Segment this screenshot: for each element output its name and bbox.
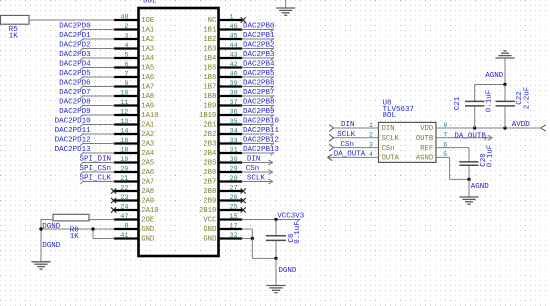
svg-text:46: 46: [230, 23, 238, 31]
svg-text:DAC2PD4: DAC2PD4: [59, 61, 91, 69]
svg-text:1B1: 1B1: [203, 26, 216, 34]
svg-text:2B10: 2B10: [199, 207, 216, 215]
svg-text:DAC2PD9: DAC2PD9: [59, 108, 91, 116]
svg-text:2B1: 2B1: [203, 121, 216, 129]
svg-text:SCLK: SCLK: [247, 175, 266, 183]
svg-text:DAC2PB8: DAC2PB8: [243, 99, 275, 107]
svg-text:AGND: AGND: [485, 72, 504, 80]
svg-text:2B5: 2B5: [203, 159, 216, 167]
svg-text:1A3: 1A3: [141, 45, 154, 53]
svg-text:18: 18: [120, 146, 128, 154]
svg-text:DAC2PD5: DAC2PD5: [59, 70, 91, 78]
svg-text:22: 22: [120, 184, 128, 192]
svg-text:SPI_CSn: SPI_CSn: [79, 165, 111, 173]
svg-text:26: 26: [230, 194, 238, 202]
svg-text:CSn: CSn: [340, 141, 354, 149]
svg-text:1A6: 1A6: [141, 74, 154, 82]
svg-text:0.1uF: 0.1uF: [294, 221, 302, 244]
svg-text:DAC2PB11: DAC2PB11: [243, 127, 280, 135]
svg-text:DAC2PB6: DAC2PB6: [243, 80, 275, 88]
svg-text:VDD: VDD: [420, 125, 433, 133]
svg-text:1A1: 1A1: [141, 26, 154, 34]
svg-text:33: 33: [230, 137, 238, 145]
svg-text:12: 12: [120, 108, 128, 116]
svg-text:11: 11: [120, 99, 128, 107]
svg-text:AVDD: AVDD: [512, 121, 531, 129]
svg-text:7: 7: [443, 132, 447, 140]
svg-text:44: 44: [230, 42, 238, 50]
svg-text:10: 10: [120, 89, 128, 97]
svg-text:0.1uF: 0.1uF: [486, 145, 494, 168]
svg-text:1B7: 1B7: [203, 83, 216, 91]
svg-text:SCLK: SCLK: [337, 131, 356, 139]
svg-text:2B2: 2B2: [203, 131, 216, 139]
svg-text:2B9: 2B9: [203, 197, 216, 205]
svg-text:4: 4: [369, 151, 373, 159]
svg-text:35: 35: [230, 118, 238, 126]
svg-text:24: 24: [120, 203, 128, 211]
svg-text:1A8: 1A8: [141, 93, 154, 101]
svg-text:1A2: 1A2: [141, 36, 154, 44]
svg-text:DAC2PD8: DAC2PD8: [59, 99, 91, 107]
svg-text:CSn: CSn: [382, 145, 395, 153]
svg-text:DAC2PB2: DAC2PB2: [243, 42, 275, 50]
svg-text:14: 14: [120, 127, 128, 135]
svg-text:SPI_DIN: SPI_DIN: [79, 156, 111, 164]
svg-text:1A9: 1A9: [141, 102, 154, 110]
svg-text:OUTB: OUTB: [416, 135, 434, 143]
svg-text:47: 47: [120, 213, 128, 221]
svg-text:1B6: 1B6: [203, 74, 216, 82]
svg-text:DAC2PD12: DAC2PD12: [55, 137, 91, 145]
svg-text:DAC2PB4: DAC2PB4: [243, 61, 275, 69]
svg-text:19: 19: [120, 156, 128, 164]
svg-text:DAC2PD1: DAC2PD1: [59, 32, 91, 40]
svg-text:1A4: 1A4: [141, 55, 154, 63]
svg-text:2B8: 2B8: [203, 188, 216, 196]
svg-text:30: 30: [230, 156, 238, 164]
svg-text:DAC2PD10: DAC2PD10: [55, 118, 92, 126]
svg-text:VCC3V3: VCC3V3: [277, 213, 305, 221]
svg-text:AGND: AGND: [416, 155, 433, 163]
svg-text:21: 21: [120, 175, 128, 183]
svg-text:0.1uF: 0.1uF: [485, 90, 493, 113]
svg-text:1K: 1K: [9, 33, 19, 41]
svg-text:8OL: 8OL: [383, 112, 397, 120]
svg-text:2A4: 2A4: [141, 150, 154, 158]
svg-text:8OL: 8OL: [143, 0, 157, 5]
svg-text:1B10: 1B10: [199, 112, 216, 120]
svg-text:4: 4: [124, 42, 128, 50]
svg-text:1K: 1K: [70, 233, 80, 241]
svg-text:CSn: CSn: [246, 165, 260, 173]
svg-text:REF: REF: [420, 145, 433, 153]
svg-text:28: 28: [230, 175, 238, 183]
svg-text:2A7: 2A7: [141, 178, 154, 186]
svg-text:DAC2PB5: DAC2PB5: [243, 70, 275, 78]
svg-text:DA_OUTA: DA_OUTA: [334, 151, 366, 159]
svg-text:GND: GND: [203, 226, 216, 234]
svg-text:DAC2PD0: DAC2PD0: [59, 23, 91, 31]
svg-text:DAC2PD2: DAC2PD2: [59, 42, 91, 50]
svg-text:DAC2PD7: DAC2PD7: [59, 89, 91, 97]
svg-text:2B3: 2B3: [203, 140, 216, 148]
svg-text:DAC2PB10: DAC2PB10: [243, 118, 280, 126]
svg-text:1B3: 1B3: [203, 45, 216, 53]
svg-text:31: 31: [230, 146, 238, 154]
svg-text:1B9: 1B9: [203, 102, 216, 110]
svg-text:8: 8: [124, 222, 128, 230]
svg-text:23: 23: [120, 194, 128, 202]
svg-text:42: 42: [230, 61, 238, 69]
svg-text:DGND: DGND: [42, 242, 61, 250]
svg-text:SCLK: SCLK: [382, 135, 400, 143]
svg-text:16: 16: [120, 137, 128, 145]
svg-text:45: 45: [230, 32, 238, 40]
svg-text:8: 8: [443, 122, 447, 130]
svg-text:43: 43: [230, 51, 238, 59]
svg-text:2A1: 2A1: [141, 121, 154, 129]
svg-text:1OE: 1OE: [141, 17, 154, 25]
svg-text:2B4: 2B4: [203, 150, 216, 158]
svg-text:1B2: 1B2: [203, 36, 216, 44]
svg-text:7: 7: [124, 70, 128, 78]
svg-text:1B4: 1B4: [203, 55, 216, 63]
svg-text:3: 3: [369, 141, 373, 149]
svg-text:9: 9: [124, 80, 128, 88]
svg-text:20: 20: [120, 165, 128, 173]
svg-text:2A9: 2A9: [141, 197, 154, 205]
svg-text:DA_OUTB: DA_OUTB: [454, 132, 486, 140]
svg-text:DAC2PB9: DAC2PB9: [243, 108, 275, 116]
svg-text:2B7: 2B7: [203, 178, 216, 186]
svg-text:2: 2: [369, 132, 373, 140]
svg-text:DIN: DIN: [382, 125, 395, 133]
svg-text:C21: C21: [454, 96, 462, 110]
svg-text:DAC2PD11: DAC2PD11: [55, 127, 92, 135]
svg-text:6: 6: [124, 61, 128, 69]
svg-text:1B8: 1B8: [203, 93, 216, 101]
svg-text:3: 3: [124, 32, 128, 40]
svg-text:DAC2PB7: DAC2PB7: [243, 89, 275, 97]
svg-text:AGND: AGND: [471, 183, 490, 191]
svg-text:36: 36: [230, 108, 238, 116]
svg-text:17: 17: [230, 222, 238, 230]
svg-text:5: 5: [124, 51, 128, 59]
svg-text:5: 5: [443, 151, 447, 159]
svg-text:1B5: 1B5: [203, 64, 216, 72]
svg-text:DAC2PB13: DAC2PB13: [243, 146, 280, 154]
svg-text:2B6: 2B6: [203, 169, 216, 177]
svg-text:41: 41: [120, 232, 128, 240]
svg-text:39: 39: [230, 80, 238, 88]
svg-text:1: 1: [230, 13, 234, 21]
svg-text:2A8: 2A8: [141, 188, 154, 196]
svg-text:DIN: DIN: [341, 121, 355, 129]
svg-text:GND: GND: [141, 226, 154, 234]
svg-text:DAC2PB1: DAC2PB1: [243, 32, 275, 40]
svg-text:32: 32: [230, 232, 238, 240]
svg-text:2: 2: [124, 23, 128, 31]
svg-text:2.2uF: 2.2uF: [524, 87, 532, 110]
svg-text:38: 38: [230, 89, 238, 97]
svg-text:1: 1: [369, 122, 373, 130]
svg-text:40: 40: [230, 70, 238, 78]
svg-text:1A5: 1A5: [141, 64, 154, 72]
svg-text:DAC2PD6: DAC2PD6: [59, 80, 91, 88]
svg-text:1A7: 1A7: [141, 83, 154, 91]
svg-text:NC: NC: [208, 17, 217, 25]
svg-text:DAC2PD13: DAC2PD13: [55, 146, 92, 154]
svg-text:DGND: DGND: [278, 267, 297, 275]
svg-text:VCC: VCC: [203, 216, 217, 224]
svg-text:2A5: 2A5: [141, 159, 154, 167]
svg-text:DAC2PB12: DAC2PB12: [243, 137, 279, 145]
svg-text:DIN: DIN: [247, 156, 261, 164]
svg-text:2A2: 2A2: [141, 131, 154, 139]
svg-text:DAC2PB3: DAC2PB3: [243, 51, 275, 59]
svg-text:48: 48: [120, 13, 128, 21]
svg-text:SPI_CLK: SPI_CLK: [79, 175, 111, 183]
svg-text:27: 27: [230, 184, 238, 192]
svg-text:1A10: 1A10: [141, 112, 158, 120]
svg-text:25: 25: [230, 203, 238, 211]
svg-text:2A6: 2A6: [141, 169, 154, 177]
svg-text:29: 29: [230, 165, 238, 173]
svg-text:34: 34: [230, 127, 238, 135]
svg-text:6: 6: [443, 141, 447, 149]
svg-text:2A3: 2A3: [141, 140, 154, 148]
svg-text:GND: GND: [141, 235, 154, 243]
svg-text:DAC2PB0: DAC2PB0: [243, 23, 275, 31]
svg-text:37: 37: [230, 99, 238, 107]
svg-text:15: 15: [230, 213, 238, 221]
svg-text:OUTA: OUTA: [382, 155, 400, 163]
svg-text:DAC2PD3: DAC2PD3: [59, 51, 91, 59]
svg-text:DGND: DGND: [42, 223, 61, 231]
svg-text:GND: GND: [203, 235, 216, 243]
svg-text:2A10: 2A10: [141, 207, 158, 215]
svg-text:2OE: 2OE: [141, 216, 154, 224]
svg-text:13: 13: [120, 118, 128, 126]
